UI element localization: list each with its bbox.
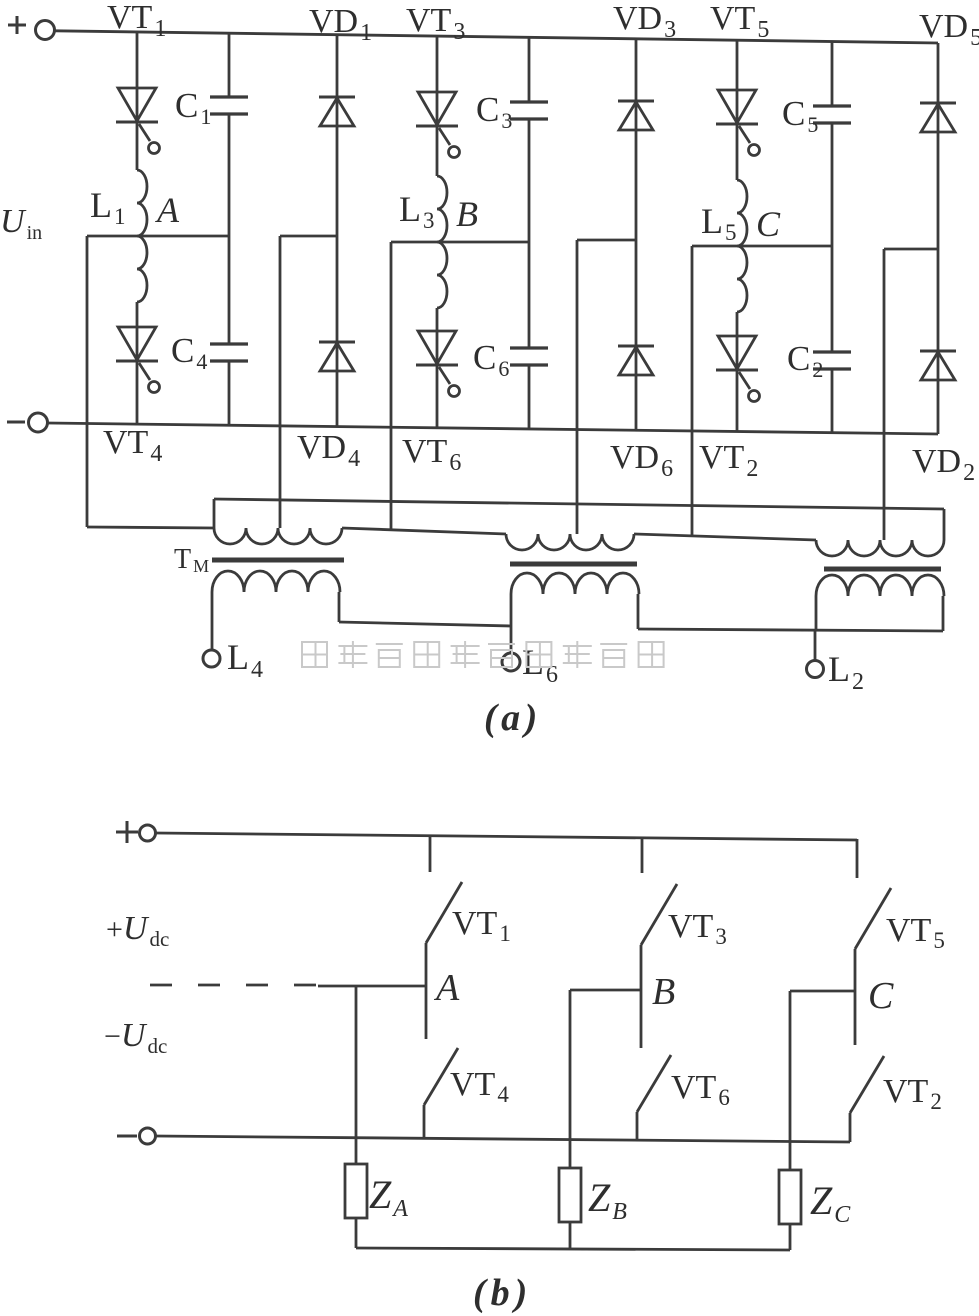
wire: inductor L5 through thyristor VT2 to bottom rail [736,312,739,432]
watermark hangzhou jiangrui technology co ltd [302,642,327,667]
wire: impedance ZB to star point [569,1222,572,1249]
wire: impedance ZA to star point [355,1218,358,1248]
wire: node A line part b [318,985,426,988]
wire: primary 2 centre tap to VD3/VD6 column [576,240,579,534]
thyristor VT2 [718,336,756,369]
svg-text:C: C [868,975,894,1017]
impedance ZA [345,1164,367,1218]
wire: top rail drop to switch VT1 [429,835,432,872]
wire: node A stub down to transformer primary 1 [86,236,89,527]
wire: secondary 1 left end to terminal L4 [211,592,214,650]
diode VD2 [920,350,956,353]
plus input terminal [8,24,26,27]
transformer TM secondary winding 2 [511,573,639,594]
transformer TM primary winding 2 [506,534,634,550]
wire: top rail through thyristor VT3 to inductor L3 [436,36,439,176]
wire: top rail through diodes VD1 and VD4 to bottom rail [336,35,339,427]
wire: inductor L3 through thyristor VT6 to bottom rail [436,308,439,428]
plus terminal part b [116,831,138,834]
wire: top rail through thyristor VT1 to inductor L1 [136,32,139,170]
inductor L5 [737,180,747,312]
wire: top rail to capacitor C1 [228,33,231,97]
diode VD6 [618,345,654,348]
wire: node B line part b [570,989,641,992]
impedance ZB [559,1168,581,1222]
wire: switch VT2 to bottom rail [849,1113,852,1142]
wire: top rail through diodes VD3 and VD6 to bottom rail [635,39,638,430]
inductor L1 [137,170,147,302]
wire: bottom negative rail [48,423,938,434]
switch VT5 (idealised thyristor) [855,888,891,949]
wire: top rail drop to switch VT5 [856,839,859,878]
wire: star point connecting line [356,1248,790,1250]
wire: top rail drop to switch VT3 [641,837,644,873]
diode VD5 [920,102,956,105]
node A line [87,235,229,238]
wire: primary 1 centre tap to VD1/VD4 column [279,236,282,528]
impedance ZC [779,1170,801,1224]
wire: switch VT4 to bottom rail [423,1105,426,1138]
switch VT2 (idealised thyristor) [850,1056,884,1113]
minus input terminal [7,421,25,424]
switch VT1 (idealised thyristor) [426,882,462,943]
svg-text:C: C [756,204,781,244]
wire: impedance ZC to star point [789,1224,792,1250]
diode VD1 [319,96,355,99]
wire: top rail to capacitor C3 [528,37,531,102]
svg-text:(b): (b) [473,1272,532,1314]
wire: switch VT3 to node [640,945,643,990]
wire: secondary 2 right end over to secondary 3 and terminal L2 [637,594,640,629]
terminal L2 [807,661,824,678]
transformer TM primary winding 3 [816,540,944,556]
wire: primary 2 to primary 3 [634,534,816,540]
wire: top positive rail [55,31,938,43]
wire: node C stub down to transformer primary junction 2-3 [691,246,694,537]
capacitor C5 [813,104,851,107]
switch VT6 (idealised thyristor) [637,1055,671,1112]
capacitor C1 [210,95,248,98]
wire: switch VT1 to node [425,943,428,986]
capacitor C3 [510,100,548,103]
wire: capacitor C4 to bottom rail [228,361,231,425]
thyristor VT4 [118,327,156,360]
wire: dashed Udc midpoint line [150,984,320,987]
wire: switch VT6 to bottom rail [636,1112,639,1140]
wire: top rail to capacitor C5 [831,42,834,106]
wire: node to impedance ZB [569,990,572,1168]
svg-text:B: B [456,194,478,234]
svg-text:A: A [433,967,460,1009]
wire: primary 3 centre tap to VD5/VD2 column [883,249,886,540]
terminal L4 [203,650,220,667]
switch VT4 (idealised thyristor) [424,1048,458,1105]
transformer TM primary winding 1 [214,528,342,544]
wire: node to impedance ZA [355,986,358,1164]
wire: part b top positive rail [156,833,857,840]
wire: primary 1 to primary 2 [342,528,506,534]
svg-text:A: A [155,190,180,230]
wire: node down to switch VT2 [854,991,857,1045]
thyristor VT6 [418,331,456,364]
wire: capacitor C5 to node C to capacitor C2 [831,123,834,352]
transformer TM core 2 [510,562,637,567]
thyristor VT1 [118,88,156,121]
wire: capacitor C1 to node A to capacitor C4 [228,114,231,344]
transformer TM secondary winding 1 [212,571,340,592]
switch VT3 (idealised thyristor) [641,884,677,945]
wire: top rail through diodes VD5 and VD2 to bottom rail [937,43,940,434]
terminal L6 [502,653,520,671]
capacitor C4 [210,342,248,345]
wire: node to impedance ZC [789,991,792,1170]
svg-text:(a): (a) [484,697,542,739]
node C line [692,245,832,248]
wire: transformer delta top link (primary 3 end to primary 1 start) [214,499,944,509]
inductor L3 [437,176,447,308]
wire: node B stub down to transformer primary junction 1-2 [390,242,393,531]
transformer TM core 1 [212,558,344,563]
transformer TM secondary winding 3 [816,575,944,596]
minus terminal part b [117,1135,137,1138]
wire: capacitor C6 to bottom rail [528,365,531,429]
capacitor C2 [813,350,851,353]
thyristor VT5 [718,90,756,123]
thyristor VT3 [418,92,456,125]
diode VD3 [618,100,654,103]
wire: node C line part b [790,990,855,993]
transformer TM core 3 [824,567,941,572]
wire: part b bottom negative rail [156,1136,850,1142]
capacitor C6 [510,346,548,349]
wire: secondary 1 right end down and over to secondary 2 [338,592,341,622]
svg-text:B: B [652,971,675,1013]
wire: node down to switch VT4 [425,986,428,1039]
diode VD4 [319,341,355,344]
wire: capacitor C2 to bottom rail [831,369,834,433]
wire: switch VT5 to node [854,949,857,991]
wire: junction down to terminal L2 [815,596,818,631]
wire: inductor L1 through thyristor VT4 to bottom rail [136,302,139,424]
wire: top rail through thyristor VT5 to inductor L5 [736,40,739,180]
wire: capacitor C3 to node B to capacitor C6 [528,119,531,348]
wire: secondary 2 left end through junction to terminal L6 [510,594,513,653]
wire: node down to switch VT6 [640,990,643,1048]
node B line [391,241,529,244]
